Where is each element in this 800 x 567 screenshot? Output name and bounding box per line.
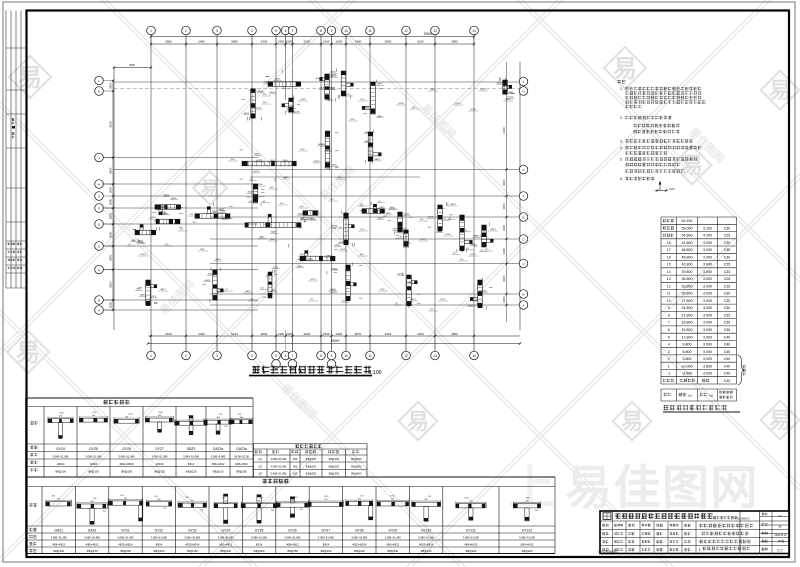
svg-text:2800: 2800 bbox=[109, 231, 113, 238]
svg-text:Φ6@600: Φ6@600 bbox=[351, 457, 362, 461]
svg-text:120: 120 bbox=[163, 508, 166, 510]
svg-text:GYZ8: GYZ8 bbox=[340, 249, 346, 251]
svg-text:GYZ9: GYZ9 bbox=[480, 89, 486, 91]
svg-text:30.800: 30.800 bbox=[682, 292, 693, 296]
svg-text:3400: 3400 bbox=[417, 332, 424, 336]
svg-text:6.800: 6.800 bbox=[683, 350, 692, 354]
svg-text:E: E bbox=[522, 216, 524, 220]
svg-text:C40: C40 bbox=[724, 372, 731, 376]
svg-text:Φ8@150: Φ8@150 bbox=[187, 549, 198, 553]
svg-text:4Φ25+8Φ14: 4Φ25+8Φ14 bbox=[352, 542, 367, 546]
svg-text:8Φ14: 8Φ14 bbox=[256, 542, 263, 546]
svg-text:GAZ9: GAZ9 bbox=[404, 213, 410, 216]
svg-text:Φ8@200: Φ8@200 bbox=[522, 549, 533, 553]
svg-text:易: 易 bbox=[407, 409, 429, 434]
svg-text:28Φ+4Φ12: 28Φ+4Φ12 bbox=[212, 462, 225, 466]
svg-text:3.080~51.080: 3.080~51.080 bbox=[318, 536, 334, 540]
svg-text:3850: 3850 bbox=[451, 40, 458, 44]
svg-text:3.000: 3.000 bbox=[703, 314, 712, 318]
svg-text:3.150: 3.150 bbox=[703, 226, 712, 230]
svg-text:GBZ5: GBZ5 bbox=[410, 299, 416, 301]
svg-text:易: 易 bbox=[16, 340, 40, 367]
svg-text:GYZ6: GYZ6 bbox=[256, 160, 262, 162]
svg-text:S1-080072: S1-080072 bbox=[737, 517, 750, 521]
svg-text:3.080~51.080: 3.080~51.080 bbox=[351, 536, 367, 540]
svg-text:6: 6 bbox=[285, 354, 287, 358]
svg-text:51.800: 51.800 bbox=[682, 241, 693, 245]
svg-text:8Φ14: 8Φ14 bbox=[188, 462, 195, 466]
svg-text:12: 12 bbox=[404, 354, 408, 358]
svg-text:32Φ+6Φ12: 32Φ+6Φ12 bbox=[235, 462, 248, 466]
svg-text:3.000: 3.000 bbox=[703, 335, 712, 339]
svg-text:C35: C35 bbox=[724, 328, 731, 332]
svg-text:3.080~51.080: 3.080~51.080 bbox=[218, 536, 234, 540]
svg-text:1500: 1500 bbox=[323, 40, 330, 44]
svg-text:3.080~51.080: 3.080~51.080 bbox=[385, 536, 401, 540]
svg-text:17: 17 bbox=[667, 248, 671, 252]
svg-text:GAZ3: GAZ3 bbox=[244, 112, 250, 115]
svg-text:GYZ4: GYZ4 bbox=[56, 447, 65, 451]
svg-text:-1: -1 bbox=[667, 372, 670, 376]
svg-text:4Φ8+4Φ12: 4Φ8+4Φ12 bbox=[86, 542, 99, 546]
svg-text:GY23: GY23 bbox=[188, 529, 197, 533]
svg-text:9200: 9200 bbox=[108, 121, 112, 128]
svg-text:7: 7 bbox=[292, 354, 294, 358]
svg-text:GYZ2: GYZ2 bbox=[300, 99, 306, 101]
svg-text:7: 7 bbox=[668, 321, 670, 325]
svg-text:GY21: GY21 bbox=[121, 529, 130, 533]
svg-text:21.800: 21.800 bbox=[682, 314, 693, 318]
svg-text:3.000: 3.000 bbox=[703, 350, 712, 354]
svg-text:3.080~51.080: 3.080~51.080 bbox=[53, 454, 69, 458]
svg-text:GY26: GY26 bbox=[288, 529, 297, 533]
svg-text:2.: 2. bbox=[620, 116, 623, 120]
svg-text:2: 2 bbox=[668, 357, 670, 361]
svg-text:A: A bbox=[98, 309, 100, 313]
svg-text:GBZ2: GBZ2 bbox=[245, 291, 251, 293]
svg-text:GY29: GY29 bbox=[388, 529, 397, 533]
svg-text:9: 9 bbox=[331, 29, 333, 33]
svg-text:2800: 2800 bbox=[129, 63, 135, 67]
svg-text:Φ8@100: Φ8@100 bbox=[55, 470, 66, 474]
svg-text:C30: C30 bbox=[724, 292, 731, 296]
svg-text:6Φ0+4Φ12: 6Φ0+4Φ12 bbox=[521, 542, 534, 546]
svg-text:GAZ1: GAZ1 bbox=[385, 212, 391, 215]
svg-text:GAZ4: GAZ4 bbox=[364, 106, 370, 109]
svg-text:1: 1 bbox=[150, 354, 152, 358]
svg-text:3: 3 bbox=[668, 350, 670, 354]
svg-text:2800: 2800 bbox=[261, 332, 268, 336]
svg-text:C30: C30 bbox=[724, 255, 731, 259]
svg-text:3.080~51.080: 3.080~51.080 bbox=[184, 536, 200, 540]
svg-text:易: 易 bbox=[769, 408, 791, 433]
svg-text:GYZ3: GYZ3 bbox=[140, 254, 146, 256]
svg-text:48.800: 48.800 bbox=[682, 248, 693, 252]
svg-text:GAZ2: GAZ2 bbox=[275, 78, 281, 81]
svg-text:200: 200 bbox=[271, 510, 274, 512]
svg-text:13: 13 bbox=[433, 354, 437, 358]
svg-text:A2: A2 bbox=[778, 514, 782, 518]
svg-text:GY24: GY24 bbox=[221, 529, 230, 533]
svg-text:5: 5 bbox=[275, 29, 277, 33]
svg-text:300: 300 bbox=[224, 426, 227, 428]
svg-text:Q1: Q1 bbox=[258, 457, 262, 461]
svg-text:1500: 1500 bbox=[286, 40, 293, 44]
svg-text:4.: 4. bbox=[620, 146, 623, 150]
svg-text:≥100: ≥100 bbox=[669, 188, 675, 191]
svg-text:3.080~51.080: 3.080~51.080 bbox=[119, 454, 135, 458]
svg-text:8Φ14: 8Φ14 bbox=[156, 542, 163, 546]
svg-text:3.080~51.080: 3.080~51.080 bbox=[519, 536, 535, 540]
svg-text:C30: C30 bbox=[724, 241, 731, 245]
svg-text:4: 4 bbox=[668, 343, 670, 347]
svg-text:B: B bbox=[98, 299, 100, 303]
svg-text:GBZ3: GBZ3 bbox=[187, 447, 196, 451]
svg-text:3300: 3300 bbox=[502, 224, 506, 231]
svg-text:29600: 29600 bbox=[331, 339, 340, 343]
svg-text:易: 易 bbox=[200, 178, 219, 200]
svg-text:2800: 2800 bbox=[109, 186, 113, 193]
svg-text:16Φ14: 16Φ14 bbox=[57, 462, 65, 466]
svg-text:C25: C25 bbox=[724, 263, 731, 267]
svg-text:4Φ8+4Φ12: 4Φ8+4Φ12 bbox=[464, 542, 477, 546]
svg-text:14: 14 bbox=[472, 354, 476, 358]
svg-text:2800: 2800 bbox=[109, 212, 113, 219]
svg-text:C30: C30 bbox=[724, 306, 731, 310]
svg-text:GBZ4: GBZ4 bbox=[450, 204, 456, 206]
svg-text:GY25: GY25 bbox=[255, 529, 264, 533]
svg-text:GAZ9: GAZ9 bbox=[283, 176, 289, 179]
svg-text:GAZ2: GAZ2 bbox=[365, 140, 371, 143]
svg-text:5.: 5. bbox=[620, 158, 623, 162]
svg-text:3.800: 3.800 bbox=[703, 364, 712, 368]
svg-text:Φ8@130: Φ8@130 bbox=[213, 470, 224, 474]
svg-text:4.200: 4.200 bbox=[703, 234, 712, 238]
svg-text:GYZ6: GYZ6 bbox=[398, 103, 404, 105]
svg-text:8Φ14: 8Φ14 bbox=[323, 542, 330, 546]
svg-text:GYZ7: GYZ7 bbox=[440, 299, 446, 301]
svg-text:250: 250 bbox=[293, 457, 298, 461]
svg-text:11: 11 bbox=[368, 354, 372, 358]
svg-text:200: 200 bbox=[293, 464, 298, 468]
svg-text:GBZ8: GBZ8 bbox=[215, 259, 221, 261]
svg-text:C35: C35 bbox=[724, 314, 731, 318]
svg-text:4Φ22+8Φ16: 4Φ22+8Φ16 bbox=[119, 462, 134, 466]
svg-text:GYZ3: GYZ3 bbox=[445, 234, 451, 236]
svg-text:GBZ1: GBZ1 bbox=[160, 289, 166, 291]
svg-text:3.080~51.080: 3.080~51.080 bbox=[183, 454, 199, 458]
svg-text:10: 10 bbox=[344, 29, 348, 33]
svg-text:易: 易 bbox=[769, 78, 791, 103]
svg-text:GAZ3: GAZ3 bbox=[374, 158, 380, 161]
svg-text:Φ8@120: Φ8@120 bbox=[186, 470, 197, 474]
svg-text:13: 13 bbox=[667, 277, 671, 281]
svg-text:GAZ5: GAZ5 bbox=[320, 87, 326, 90]
svg-text:GYZ1: GYZ1 bbox=[470, 254, 476, 256]
svg-text:12Φ16: 12Φ16 bbox=[156, 462, 164, 466]
svg-text:1500: 1500 bbox=[286, 332, 293, 336]
svg-text:C40: C40 bbox=[724, 364, 731, 368]
svg-text:C30: C30 bbox=[724, 226, 731, 230]
svg-text:Φ8@200: Φ8@200 bbox=[153, 549, 164, 553]
svg-text:1: 1 bbox=[150, 29, 152, 33]
svg-text:C35: C35 bbox=[724, 321, 731, 325]
svg-text:GA22: GA22 bbox=[88, 529, 97, 533]
svg-text:3.000: 3.000 bbox=[703, 343, 712, 347]
svg-text:易佳图网: 易佳图网 bbox=[565, 461, 759, 514]
svg-text:GY22: GY22 bbox=[155, 529, 164, 533]
svg-text:200: 200 bbox=[535, 510, 538, 512]
svg-text:4: 4 bbox=[251, 354, 253, 358]
svg-text:6: 6 bbox=[285, 29, 287, 33]
svg-text:GA21: GA21 bbox=[54, 529, 63, 533]
svg-text:12: 12 bbox=[667, 284, 671, 288]
svg-text:易: 易 bbox=[621, 409, 643, 434]
svg-text:6Φ0+4Φ12: 6Φ0+4Φ12 bbox=[219, 542, 232, 546]
svg-text:C30: C30 bbox=[724, 248, 731, 252]
svg-text:12Φ16: 12Φ16 bbox=[90, 462, 98, 466]
svg-text:3.080~24.980: 3.080~24.980 bbox=[84, 536, 100, 540]
svg-text:27.800: 27.800 bbox=[682, 299, 693, 303]
svg-text:2800: 2800 bbox=[109, 82, 113, 89]
svg-text:3.080~51.080: 3.080~51.080 bbox=[285, 536, 301, 540]
svg-text:3.000: 3.000 bbox=[703, 241, 712, 245]
svg-text:24.98~51.08: 24.98~51.08 bbox=[234, 454, 249, 458]
svg-text:1: 1 bbox=[668, 364, 670, 368]
svg-text:GYZ8: GYZ8 bbox=[470, 109, 476, 111]
svg-text:3300: 3300 bbox=[502, 203, 506, 210]
svg-text:Φ8@200: Φ8@200 bbox=[465, 549, 476, 553]
svg-text:GAZ7: GAZ7 bbox=[287, 108, 293, 111]
svg-text:GAZ3: GAZ3 bbox=[219, 208, 225, 211]
svg-text:GAZ9: GAZ9 bbox=[259, 236, 265, 239]
svg-text:7: 7 bbox=[292, 29, 294, 33]
svg-text:15.800: 15.800 bbox=[682, 328, 693, 332]
svg-text:(m): (m) bbox=[688, 394, 692, 398]
svg-text:GBZ8: GBZ8 bbox=[330, 289, 336, 291]
svg-text:GAZ1: GAZ1 bbox=[208, 273, 214, 276]
svg-text:13: 13 bbox=[433, 29, 437, 33]
svg-text:Φ8@150: Φ8@150 bbox=[287, 549, 298, 553]
svg-text:3.800: 3.800 bbox=[683, 357, 692, 361]
svg-text:H: H bbox=[98, 183, 100, 187]
svg-text:3.000: 3.000 bbox=[703, 292, 712, 296]
svg-text:1500: 1500 bbox=[323, 332, 330, 336]
svg-text:Φ8@200: Φ8@200 bbox=[329, 464, 340, 468]
svg-text:GY212: GY212 bbox=[522, 529, 532, 533]
svg-text:300: 300 bbox=[200, 509, 203, 511]
svg-text:42.800: 42.800 bbox=[682, 263, 693, 267]
svg-text:Φ8@200: Φ8@200 bbox=[306, 457, 317, 461]
svg-text:6: 6 bbox=[668, 328, 670, 332]
svg-text:4: 4 bbox=[251, 29, 253, 33]
svg-text:Φ8@200: Φ8@200 bbox=[320, 549, 331, 553]
svg-text:2800: 2800 bbox=[109, 281, 113, 288]
svg-text:Φ8@200: Φ8@200 bbox=[53, 549, 64, 553]
svg-text:10: 10 bbox=[344, 354, 348, 358]
svg-text:8: 8 bbox=[320, 29, 322, 33]
svg-text:12: 12 bbox=[404, 29, 408, 33]
svg-text:24.800: 24.800 bbox=[682, 306, 693, 310]
svg-text:3300: 3300 bbox=[502, 127, 506, 134]
svg-text:Φ8@200: Φ8@200 bbox=[306, 472, 317, 476]
svg-text:2800: 2800 bbox=[109, 167, 113, 174]
svg-text:GAZ7: GAZ7 bbox=[331, 267, 337, 270]
svg-text:2400: 2400 bbox=[335, 332, 342, 336]
svg-text:9: 9 bbox=[331, 354, 333, 358]
svg-text:18: 18 bbox=[667, 241, 671, 245]
svg-text:E: E bbox=[98, 223, 100, 227]
svg-text:易: 易 bbox=[18, 65, 42, 92]
svg-text:GAZ5: GAZ5 bbox=[164, 194, 170, 197]
svg-text:5130: 5130 bbox=[231, 332, 238, 336]
svg-text:Φ8@150: Φ8@150 bbox=[121, 470, 132, 474]
svg-text:5: 5 bbox=[668, 335, 670, 339]
svg-text:3300: 3300 bbox=[502, 248, 506, 255]
svg-text:1400: 1400 bbox=[277, 40, 284, 44]
svg-text:3300: 3300 bbox=[502, 275, 506, 282]
svg-text:Φ6@600: Φ6@600 bbox=[351, 472, 362, 476]
svg-text:62.150: 62.150 bbox=[682, 219, 693, 223]
svg-text:GY211: GY211 bbox=[466, 529, 476, 533]
svg-text:3.000: 3.000 bbox=[703, 284, 712, 288]
svg-text:Φ8@150: Φ8@150 bbox=[421, 549, 432, 553]
svg-text:3.080~51.080: 3.080~51.080 bbox=[271, 464, 287, 468]
svg-text:GAZ2: GAZ2 bbox=[377, 115, 383, 118]
svg-text:C40: C40 bbox=[724, 379, 731, 383]
svg-text:GYZ1: GYZ1 bbox=[420, 239, 426, 241]
svg-text:GYZ2: GYZ2 bbox=[455, 103, 461, 105]
svg-text:3100: 3100 bbox=[417, 40, 424, 44]
svg-text:Φ8@200: Φ8@200 bbox=[120, 549, 131, 553]
svg-text:Φ8@200: Φ8@200 bbox=[387, 549, 398, 553]
svg-text:3.080~51.080: 3.080~51.080 bbox=[463, 536, 479, 540]
svg-text:GAZ5: GAZ5 bbox=[508, 91, 514, 94]
svg-text:3.000: 3.000 bbox=[703, 255, 712, 259]
svg-text:3.000: 3.000 bbox=[703, 263, 712, 267]
svg-text:2200: 2200 bbox=[303, 332, 310, 336]
svg-text:5: 5 bbox=[275, 354, 277, 358]
svg-text:GYZ6: GYZ6 bbox=[122, 447, 131, 451]
svg-text:2400: 2400 bbox=[198, 332, 205, 336]
svg-text:4Φ25+8Φ14: 4Φ25+8Φ14 bbox=[419, 542, 434, 546]
svg-text:18.800: 18.800 bbox=[682, 321, 693, 325]
svg-text:1600: 1600 bbox=[335, 40, 342, 44]
svg-text:C25: C25 bbox=[724, 277, 731, 281]
svg-text:15: 15 bbox=[667, 263, 671, 267]
svg-text:3.: 3. bbox=[620, 140, 623, 144]
svg-text:3.080~51.080: 3.080~51.080 bbox=[251, 536, 267, 540]
svg-text:3.000: 3.000 bbox=[703, 277, 712, 281]
svg-text:8: 8 bbox=[320, 354, 322, 358]
svg-text:F: F bbox=[98, 207, 100, 211]
svg-text:3800: 3800 bbox=[165, 40, 172, 44]
svg-text:A: A bbox=[522, 304, 524, 308]
svg-text:1400: 1400 bbox=[277, 332, 284, 336]
svg-text:3870: 3870 bbox=[355, 332, 362, 336]
svg-text:2200: 2200 bbox=[303, 40, 310, 44]
svg-text:C40: C40 bbox=[724, 335, 731, 339]
svg-text:2800: 2800 bbox=[109, 254, 113, 261]
svg-text:3000: 3000 bbox=[385, 40, 392, 44]
svg-text:3.080~51.080: 3.080~51.080 bbox=[51, 536, 67, 540]
svg-text:GAZ9: GAZ9 bbox=[258, 90, 264, 93]
svg-text:6Φ0+4Φ12: 6Φ0+4Φ12 bbox=[386, 542, 399, 546]
svg-text:GYZ5: GYZ5 bbox=[89, 447, 98, 451]
svg-text:3.080~51.080: 3.080~51.080 bbox=[271, 472, 287, 476]
svg-text:3.000: 3.000 bbox=[703, 328, 712, 332]
svg-text:11: 11 bbox=[667, 292, 671, 296]
svg-text:Φ8@150: Φ8@150 bbox=[87, 549, 98, 553]
svg-text:160: 160 bbox=[293, 472, 298, 476]
svg-text:2: 2 bbox=[185, 354, 187, 358]
svg-text:11: 11 bbox=[368, 29, 372, 33]
svg-text:4Φ8+4Φ12: 4Φ8+4Φ12 bbox=[52, 542, 65, 546]
svg-text:GAZ9: GAZ9 bbox=[407, 281, 413, 284]
svg-text:4Φ25+8Φ14: 4Φ25+8Φ14 bbox=[185, 542, 200, 546]
svg-text:C-7: C-7 bbox=[777, 549, 782, 553]
svg-text:C40: C40 bbox=[724, 350, 731, 354]
svg-text:C25: C25 bbox=[724, 234, 731, 238]
svg-text:16: 16 bbox=[667, 255, 671, 259]
svg-text:Φ8@200: Φ8@200 bbox=[254, 549, 265, 553]
svg-text:2: 2 bbox=[185, 29, 187, 33]
svg-text:3.080~51.080: 3.080~51.080 bbox=[152, 454, 168, 458]
svg-text:B: B bbox=[522, 293, 524, 297]
svg-text:3.080~51.080: 3.080~51.080 bbox=[271, 457, 287, 461]
svg-text:GBZ1: GBZ1 bbox=[505, 99, 511, 101]
svg-text:2008.06.18: 2008.06.18 bbox=[775, 534, 788, 537]
svg-text:3.000: 3.000 bbox=[703, 372, 712, 376]
svg-text:GAZ7: GAZ7 bbox=[131, 239, 137, 242]
svg-text:120: 120 bbox=[300, 509, 303, 511]
svg-text:36.800: 36.800 bbox=[682, 277, 693, 281]
svg-text:3.080~8.080: 3.080~8.080 bbox=[211, 454, 226, 458]
svg-text:GAZ4: GAZ4 bbox=[270, 91, 276, 94]
svg-text:GY-CAD08001: GY-CAD08001 bbox=[598, 549, 618, 553]
svg-text:29600: 29600 bbox=[424, 32, 433, 36]
svg-text:Φ8@150: Φ8@150 bbox=[236, 470, 247, 474]
svg-text:33.800: 33.800 bbox=[682, 284, 693, 288]
svg-text:Φ8@200: Φ8@200 bbox=[329, 472, 340, 476]
svg-text:2400: 2400 bbox=[355, 40, 362, 44]
svg-text:2800: 2800 bbox=[109, 301, 113, 308]
svg-text:C30: C30 bbox=[724, 270, 731, 274]
svg-text:1: 1 bbox=[253, 365, 258, 375]
svg-text:14: 14 bbox=[472, 29, 476, 33]
svg-text:H: H bbox=[522, 90, 524, 94]
svg-text:GYZ1: GYZ1 bbox=[310, 279, 316, 281]
svg-text:GAZ5: GAZ5 bbox=[330, 70, 336, 73]
svg-text:GAZ9: GAZ9 bbox=[271, 231, 277, 234]
svg-text:59.000: 59.000 bbox=[682, 226, 693, 230]
svg-text:GAZ3a: GAZ3a bbox=[236, 447, 247, 451]
svg-text:GAZ2: GAZ2 bbox=[212, 210, 218, 213]
svg-text:易: 易 bbox=[613, 56, 637, 83]
svg-text:Q2: Q2 bbox=[258, 464, 262, 468]
svg-text:GBZ1: GBZ1 bbox=[430, 89, 436, 91]
svg-text:K: K bbox=[98, 90, 100, 94]
svg-text:3.000: 3.000 bbox=[703, 306, 712, 310]
svg-text:3: 3 bbox=[216, 354, 218, 358]
svg-text:C40: C40 bbox=[724, 343, 731, 347]
svg-text:3.000: 3.000 bbox=[703, 270, 712, 274]
svg-text:-4.500: -4.500 bbox=[682, 372, 692, 376]
svg-text:C40: C40 bbox=[724, 357, 731, 361]
svg-text:54.800: 54.800 bbox=[682, 234, 693, 238]
svg-text:45.800: 45.800 bbox=[682, 255, 693, 259]
svg-text:Q3: Q3 bbox=[258, 472, 262, 476]
